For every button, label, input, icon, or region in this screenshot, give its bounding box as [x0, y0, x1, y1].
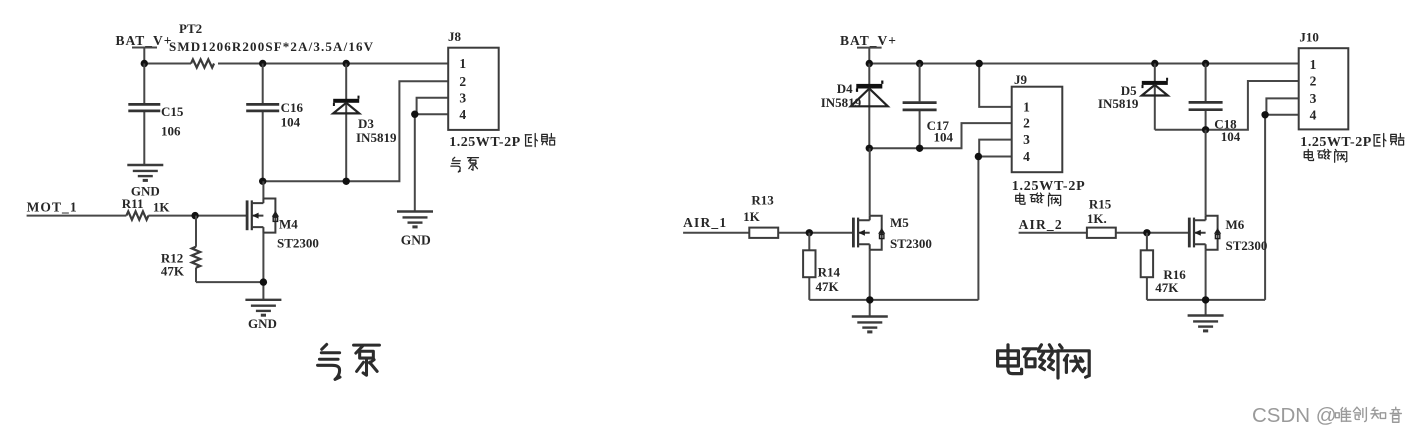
- svg-text:ST2300: ST2300: [277, 236, 319, 251]
- diode D5 IN5819: [1098, 64, 1168, 130]
- ground below C15: [127, 165, 163, 199]
- svg-text:J8: J8: [448, 29, 462, 44]
- label: 1.25WT-2P 卧贴 (J8): [449, 133, 555, 149]
- connector J8: [448, 29, 499, 130]
- svg-text:AIR_2: AIR_2: [1019, 217, 1062, 232]
- svg-text:IN5819: IN5819: [356, 130, 397, 145]
- svg-text:4: 4: [459, 107, 466, 122]
- svg-text:1.25WT-2P: 1.25WT-2P: [1012, 179, 1085, 194]
- capacitor C15: [128, 64, 184, 166]
- svg-text:2: 2: [1310, 74, 1317, 89]
- svg-text:AIR_1: AIR_1: [683, 215, 726, 230]
- transistor M6 ST2300: [1189, 130, 1267, 316]
- node: J10 pin3/pin4 junction: [1261, 111, 1268, 118]
- node: C17 bottom junction: [916, 145, 923, 152]
- node: D5 top junction: [1151, 60, 1158, 67]
- svg-text:R15: R15: [1089, 197, 1112, 212]
- connector J9: [1012, 72, 1063, 172]
- svg-text:ST2300: ST2300: [890, 236, 932, 251]
- node: pin3/pin4 junction: [411, 111, 418, 118]
- svg-text:106: 106: [161, 123, 181, 138]
- resistor R16 47K: [1141, 233, 1206, 300]
- ground below M4: [245, 300, 281, 331]
- node: D3 top junction: [343, 60, 350, 67]
- node: M6 gate junction: [1143, 229, 1150, 236]
- svg-text:GND: GND: [401, 233, 431, 248]
- svg-text:1: 1: [1023, 100, 1030, 115]
- wire: top rail right: [869, 63, 1298, 65]
- svg-text:R11: R11: [122, 196, 144, 211]
- node: C18 top junction: [1202, 60, 1209, 67]
- svg-text:M4: M4: [279, 217, 298, 232]
- svg-text:MOT_1: MOT_1: [27, 200, 77, 215]
- svg-text:1K: 1K: [153, 200, 171, 215]
- node: C17 top junction: [916, 60, 923, 67]
- svg-text:104: 104: [934, 129, 954, 144]
- svg-text:GND: GND: [248, 316, 277, 331]
- svg-text:M6: M6: [1226, 217, 1245, 232]
- net MOT_1 wire: [27, 200, 248, 216]
- svg-text:R14: R14: [818, 265, 841, 280]
- wire: J8 pin2 to drain line: [263, 81, 449, 181]
- capacitor C18: [1189, 64, 1241, 145]
- svg-text:R13: R13: [751, 192, 774, 207]
- net AIR_1 wire: [683, 215, 853, 233]
- svg-text:4: 4: [1310, 107, 1317, 122]
- node: C16 bottom junction: [259, 178, 266, 185]
- ground below M6: [1188, 316, 1224, 331]
- label: 电磁阀 (J10): [1304, 149, 1347, 162]
- power symbol BAT_V+ (left): [116, 33, 172, 64]
- capacitor C16: [246, 64, 303, 182]
- wire: J9 pin3: [979, 140, 1012, 157]
- resistor R15 1K: [1087, 197, 1116, 238]
- wire: top rail left: [144, 63, 448, 65]
- watermark CSDN: [1252, 404, 1401, 427]
- node: C18 bottom junction: [1202, 126, 1209, 133]
- node: J9 pin1 rail junction: [976, 60, 983, 67]
- resistor R13 1K: [743, 192, 778, 238]
- node: C16 top junction: [259, 60, 266, 67]
- resistor R14 47K: [803, 233, 870, 300]
- svg-text:C15: C15: [161, 104, 184, 119]
- svg-text:CSDN @: CSDN @: [1252, 404, 1337, 427]
- node: BAT junction: [141, 60, 148, 67]
- svg-text:M5: M5: [890, 215, 909, 230]
- svg-text:1K.: 1K.: [1087, 211, 1107, 226]
- svg-text:1: 1: [459, 56, 466, 71]
- connector J10: [1299, 30, 1349, 130]
- node: BAT junction right: [866, 60, 873, 67]
- transistor M4 ST2300: [247, 181, 319, 299]
- resistor R11 1K: [122, 196, 171, 220]
- svg-text:J9: J9: [1014, 72, 1028, 87]
- wire: J10 pin3: [1266, 98, 1298, 114]
- svg-text:C16: C16: [281, 100, 304, 115]
- svg-text:IN5819: IN5819: [821, 95, 862, 110]
- wire: flyback line to J10 pin2: [1155, 81, 1299, 130]
- node: gate junction: [191, 212, 198, 219]
- ground below M5: [852, 317, 888, 332]
- svg-text:47K: 47K: [1155, 280, 1179, 295]
- svg-text:47K: 47K: [816, 279, 840, 294]
- label: 气泵 (J8, small): [451, 157, 479, 172]
- label: 1.25WT-2P 卧贴 (J10): [1300, 133, 1404, 149]
- big label: 气泵: [318, 344, 380, 379]
- wire: J9 pin1 to rail: [979, 64, 1012, 107]
- svg-text:1: 1: [1310, 57, 1317, 72]
- ground below J8: [397, 212, 433, 248]
- svg-text:ST2300: ST2300: [1226, 238, 1268, 253]
- svg-text:1.25WT-2P: 1.25WT-2P: [1300, 135, 1371, 150]
- svg-text:1.25WT-2P: 1.25WT-2P: [449, 135, 520, 150]
- svg-text:SMD1206R200SF*2A/3.5A/16V: SMD1206R200SF*2A/3.5A/16V: [169, 39, 374, 54]
- svg-text:2: 2: [1023, 116, 1030, 131]
- svg-text:BAT_V+: BAT_V+: [116, 33, 172, 48]
- capacitor C17: [903, 64, 954, 149]
- svg-text:3: 3: [459, 90, 466, 105]
- node: source/R12 junction: [260, 278, 267, 285]
- svg-text:1K: 1K: [743, 209, 761, 224]
- svg-text:104: 104: [281, 114, 301, 129]
- svg-text:2: 2: [459, 74, 466, 89]
- transistor M5 ST2300: [853, 148, 932, 316]
- label: 电磁阀 (J9): [1016, 193, 1061, 206]
- node: M5 gate junction: [806, 229, 813, 236]
- node: J9 pin3/pin4 junction: [975, 153, 982, 160]
- svg-text:IN5819: IN5819: [1098, 96, 1139, 111]
- node: M5 source junction: [866, 296, 873, 303]
- svg-text:3: 3: [1023, 132, 1030, 147]
- svg-text:D4: D4: [837, 81, 853, 96]
- svg-text:3: 3: [1310, 91, 1317, 106]
- diode D3 IN5819: [333, 64, 397, 182]
- svg-text:4: 4: [1023, 149, 1030, 164]
- node: D3 bottom junction: [343, 178, 350, 185]
- svg-text:BAT_V+: BAT_V+: [840, 33, 896, 48]
- wire: J8 pin4 to GND: [415, 114, 448, 211]
- svg-text:104: 104: [1221, 129, 1241, 144]
- wire: J8 pin3: [417, 98, 449, 114]
- big label: 电磁阀: [998, 345, 1090, 378]
- node: M6 source junction: [1202, 296, 1209, 303]
- node: D4 bottom junction: [866, 145, 873, 152]
- svg-text:PT2: PT2: [179, 21, 202, 36]
- wire: J9 pin4 down to source line: [870, 157, 1012, 300]
- net AIR_2 wire: [1019, 217, 1190, 233]
- fuse PT2: [169, 21, 374, 68]
- diode D4 IN5819: [821, 64, 888, 149]
- svg-text:47K: 47K: [161, 264, 185, 279]
- svg-text:J10: J10: [1299, 30, 1319, 45]
- wire: J10 pin4 down to source line: [1206, 115, 1299, 300]
- svg-text:D3: D3: [358, 116, 374, 131]
- power symbol BAT_V+ (right): [840, 33, 896, 64]
- wire: flyback line to J9 pin2: [869, 123, 1011, 148]
- resistor R12 47K: [161, 216, 264, 283]
